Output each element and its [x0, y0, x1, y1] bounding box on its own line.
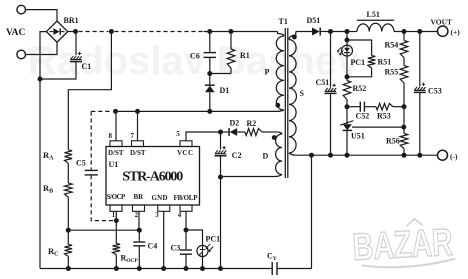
pin name GND — [152, 194, 168, 202]
svg-text:C5: C5 — [76, 159, 86, 168]
node: VCC branch on ground rail — [218, 266, 223, 271]
wire from top rail down and left to RA divider — [68, 32, 111, 150]
capacitor C53 (electrolytic) — [414, 83, 426, 93]
svg-text:R55: R55 — [385, 68, 399, 77]
svg-text:R1: R1 — [240, 51, 250, 60]
label P (primary winding) — [265, 68, 270, 77]
node: dashed line junction on S/OCP pin wire — [114, 218, 119, 223]
wire C3 top lead — [185, 230, 187, 249]
svg-text:BR1: BR1 — [64, 16, 79, 25]
pin number 3 — [155, 211, 159, 219]
node: PC1 emitter on ground rail — [200, 266, 205, 271]
pin name BR — [134, 193, 145, 201]
svg-text:R53: R53 — [377, 112, 391, 121]
node: pin7 junction on D/ST rail — [135, 109, 140, 114]
svg-text:D: D — [263, 151, 269, 160]
label (+) — [451, 28, 461, 37]
node: GND pin on ground rail — [161, 266, 166, 271]
svg-text:(+): (+) — [451, 28, 461, 37]
wire top rail solid: snubber to transformer primary — [204, 31, 278, 33]
wire U51 reference to divider node — [352, 126, 404, 128]
node: FB node junction — [184, 228, 189, 233]
label PC1 (secondary side) — [351, 58, 366, 67]
label STR-A6000 — [122, 170, 183, 185]
node: LED/R51 bottom junction — [345, 74, 350, 79]
capacitor C4 — [133, 242, 145, 246]
svg-text:D/ST: D/ST — [130, 149, 146, 157]
pin number 7 — [131, 132, 135, 140]
inductor L51 — [357, 20, 394, 31]
svg-text:S: S — [300, 89, 305, 98]
svg-text:C4: C4 — [148, 242, 158, 251]
label D2 — [230, 118, 240, 127]
wire C2 bottom lead — [220, 156, 222, 177]
node: startup resistor tap on top rail — [109, 29, 114, 34]
node: C6 top junction — [207, 29, 212, 34]
svg-text:R54: R54 — [385, 41, 399, 50]
wire U51 anode to secondary ground — [346, 130, 348, 155]
transformer auxiliary winding D — [221, 132, 283, 177]
node: auxiliary winding polarity dot — [272, 135, 277, 140]
node: BR line / C4 junction — [137, 228, 142, 233]
label D1 — [220, 86, 230, 95]
svg-text:C6: C6 — [190, 51, 200, 60]
svg-text:D/ST: D/ST — [108, 149, 124, 157]
label R55 — [385, 68, 399, 77]
svg-text:R56: R56 — [386, 137, 400, 146]
wire PC1 emitter to ground rail — [202, 257, 204, 269]
label T1 — [279, 17, 288, 26]
wire R2 to auxiliary winding D — [262, 131, 278, 133]
resistor R53 — [376, 103, 393, 110]
label RC — [48, 246, 58, 258]
node: PC1-LED / R51 top junction — [345, 38, 350, 43]
node: RB/RC/BR-line junction — [66, 228, 71, 233]
label CY — [267, 252, 277, 263]
wire secondary ground down to CY — [311, 155, 313, 268]
node: R56 bottom on secondary ground rail — [402, 153, 407, 158]
label C52 — [356, 112, 370, 121]
wire RB to BR node — [67, 197, 69, 230]
wire C51 node to PC1-LED node — [331, 31, 348, 33]
wire DC-negative: bridge left vertex down left side to bottom rail — [40, 32, 46, 269]
pin number 8 — [109, 132, 113, 140]
transistor PC1 (optocoupler photo-transistor) — [197, 244, 213, 257]
node: C3 bottom on ground rail — [184, 266, 189, 271]
capacitor C52 — [360, 102, 364, 112]
node: VCC / C2 / D2 junction — [218, 130, 223, 135]
transformer T1 core — [285, 28, 288, 178]
node: C53 top junction — [417, 29, 422, 34]
svg-text:5: 5 — [176, 130, 180, 138]
svg-text:GND: GND — [152, 194, 168, 202]
wire D2 anode to R2 — [237, 131, 245, 133]
resistor R52 — [343, 77, 351, 107]
label C1 — [82, 62, 92, 71]
wire C4 bottom lead — [138, 246, 140, 268]
pin name D/ST (pin7) — [130, 149, 146, 157]
node: C53 bottom on secondary ground rail — [417, 153, 422, 158]
svg-text:C52: C52 — [356, 112, 370, 121]
wire C53 bottom lead — [419, 92, 421, 155]
svg-text:PC1: PC1 — [351, 58, 366, 67]
svg-text:BR: BR — [134, 193, 145, 201]
svg-text:D51: D51 — [307, 16, 321, 25]
svg-text:PC1: PC1 — [206, 235, 221, 244]
label VOUT — [431, 18, 453, 27]
op-amp U1 body (STR-A6000 IC outline) — [106, 147, 200, 206]
wire VCC node to D2 cathode — [221, 131, 230, 133]
svg-text:C3: C3 — [171, 244, 181, 253]
node: C4 bottom on ground rail — [137, 266, 142, 271]
svg-text:R2: R2 — [247, 119, 257, 128]
wire R51 bottom — [347, 68, 372, 77]
wire C53 node to VOUT terminal — [420, 31, 438, 33]
wire C52 to R53 — [365, 106, 376, 108]
label C5 — [76, 159, 86, 168]
node: RC bottom on primary ground rail — [66, 266, 71, 271]
resistor RA — [65, 150, 73, 164]
wire FB node to optocoupler collector — [186, 230, 203, 245]
node: U51 anode on secondary ground rail — [345, 153, 350, 158]
svg-text:R51: R51 — [378, 58, 392, 67]
svg-text:(-): (-) — [450, 152, 458, 161]
wire pin 4 down to FB node — [185, 211, 187, 230]
node: D51 output / C51 junction — [328, 29, 333, 34]
resistor R54 — [400, 32, 408, 58]
node: R54 top junction — [402, 29, 407, 34]
wire (dashed) C5 to S/OCP pin line — [91, 175, 113, 220]
svg-text:P: P — [265, 68, 270, 77]
pin name S/OCP — [107, 193, 126, 201]
capacitor C1 (electrolytic) — [70, 52, 82, 62]
pin number 2 — [135, 211, 139, 219]
label RB — [43, 183, 53, 195]
wire U51 node to C52 — [347, 106, 360, 108]
wire C53 top lead — [419, 32, 421, 87]
wire RA to RB — [67, 163, 69, 183]
wire CY right lead — [277, 268, 311, 270]
svg-text:3: 3 — [155, 211, 159, 219]
label R51 — [378, 58, 392, 67]
wire L51 to R54 node — [394, 31, 404, 33]
wire PC1 LED branch from rail — [346, 32, 348, 41]
node: reference junction at divider — [401, 125, 406, 130]
label PC1 (primary side) — [206, 235, 221, 244]
svg-text:C2: C2 — [232, 151, 242, 160]
label L51 — [367, 10, 380, 19]
label R52 — [353, 84, 367, 93]
wire snubber junction to D1 cathode — [209, 74, 211, 86]
wire C6 top lead — [209, 32, 211, 52]
diode D2 — [229, 128, 237, 136]
wire C1 negative lead to DC- rail — [40, 62, 76, 79]
terminal VAC bottom (AC input -) — [17, 50, 26, 59]
wire D1 anode to D/ST rail — [209, 92, 211, 111]
svg-text:7: 7 — [131, 132, 135, 140]
svg-text:U51: U51 — [351, 132, 365, 141]
svg-text:D1: D1 — [220, 86, 230, 95]
svg-text:C51: C51 — [316, 78, 330, 87]
pin 2 box (bottom) — [133, 205, 145, 211]
wire BR sense line to pin 2 — [68, 229, 139, 231]
resistor RB — [65, 183, 73, 197]
wire C6/R1 bottoms join — [210, 58, 231, 74]
wire top rail (dashed main power trace) C1 node to startup tap — [79, 31, 109, 33]
svg-text:1: 1 — [112, 211, 116, 219]
wire D51 cathode to C51 node — [321, 31, 331, 33]
node: pin8 junction on D/ST rail — [113, 109, 118, 114]
wire from VAC top terminal to bridge top vertex — [26, 10, 58, 22]
capacitor C2 (electrolytic) — [215, 146, 227, 156]
label R1 — [240, 51, 250, 60]
capacitor C3 — [180, 250, 192, 254]
label D (auxiliary winding) — [263, 151, 269, 160]
label C4 — [148, 242, 158, 251]
wire secondary ground rail — [296, 154, 438, 156]
pin number 5 — [176, 130, 180, 138]
wire R1 top lead — [230, 32, 232, 50]
resistor R1 — [227, 49, 235, 68]
wire C3 bottom lead — [185, 255, 187, 269]
wire R53 to divider node — [393, 106, 404, 108]
shunt regulator U51 — [340, 107, 353, 131]
svg-text:T1: T1 — [279, 17, 288, 26]
wire pin 7 to D/ST rail — [137, 111, 139, 141]
node: primary winding polarity dot — [275, 103, 280, 108]
wire (dashed) D/ST rail left end — [91, 110, 112, 112]
label R53 — [377, 112, 391, 121]
label C53 — [428, 87, 442, 96]
diode D1 — [205, 85, 215, 92]
wire from VAC bottom terminal to bridge bottom vertex — [26, 42, 58, 54]
resistor R2 — [245, 129, 262, 136]
label VAC — [6, 28, 25, 38]
pin 4 box (bottom) — [180, 205, 192, 211]
label ROCP — [121, 254, 139, 265]
label D51 — [307, 16, 321, 25]
node: divider / compensation junction — [402, 104, 407, 109]
svg-text:VOUT: VOUT — [431, 18, 453, 27]
label RA — [43, 150, 54, 162]
svg-text:FB/OLP: FB/OLP — [174, 194, 199, 202]
pin 3 box (bottom) — [158, 205, 170, 211]
label R2 — [247, 119, 257, 128]
bridge rectifier BR1 — [46, 21, 67, 42]
pin 5 box (top) — [180, 141, 192, 147]
pin 1 box (bottom) — [110, 205, 122, 211]
wire pin 8 to D/ST rail — [115, 111, 117, 141]
diode PC1 (optocoupler LED) — [337, 40, 353, 56]
svg-text:VCC: VCC — [177, 149, 193, 157]
resistor ROCP — [113, 244, 121, 269]
svg-text:8: 8 — [109, 132, 113, 140]
decorative watermark logo (not a component) — [351, 217, 455, 270]
node: bridge + / C1 junction — [73, 29, 78, 34]
wire C51 top lead — [330, 32, 332, 88]
terminal VAC top (AC input +) — [17, 5, 26, 14]
wire C2 node down to ground rail — [220, 177, 222, 269]
wire D/ST rail to transformer primary bottom — [116, 110, 278, 112]
wire primary ground rail — [40, 268, 272, 270]
capacitor CY — [272, 262, 277, 275]
wire pin 5 VCC up and right to C2 node — [186, 132, 221, 141]
node: C2 / auxiliary winding return junction — [218, 175, 223, 180]
svg-text:4: 4 — [178, 211, 182, 219]
svg-text:U1: U1 — [109, 160, 119, 169]
resistor R56 — [400, 127, 408, 155]
node: ROCP bottom on ground rail — [114, 266, 119, 271]
capacitor C6 — [204, 53, 216, 58]
pin number 1 — [112, 211, 116, 219]
terminal VOUT (+) — [438, 26, 448, 36]
pin 7 box (top) — [132, 141, 144, 147]
wire C4 top lead — [138, 230, 140, 241]
node: PC1 LED branch junction — [345, 29, 350, 34]
node: snubber RC to D1 junction — [207, 71, 212, 76]
node: R1 top junction — [229, 29, 234, 34]
diode D51 — [312, 28, 320, 36]
svg-text:S/OCP: S/OCP — [107, 193, 126, 201]
resistor R55 — [400, 58, 408, 107]
label (-) — [450, 152, 458, 161]
wire PC1 LED cathode down — [346, 56, 348, 77]
svg-text:2: 2 — [135, 211, 139, 219]
svg-text:L51: L51 — [367, 10, 380, 19]
label C6 — [190, 51, 200, 60]
wire top rail: bridge output to C1 node — [68, 31, 78, 33]
node: C51 bottom on secondary ground rail — [328, 153, 333, 158]
svg-text:D2: D2 — [230, 118, 240, 127]
transformer primary winding P — [276, 32, 284, 112]
svg-text:VAC: VAC — [6, 28, 25, 38]
wire R51 top — [347, 40, 372, 56]
svg-text:STR-A6000: STR-A6000 — [122, 170, 183, 185]
label R54 — [385, 41, 399, 50]
capacitor C5 — [85, 170, 98, 175]
label R56 — [386, 137, 400, 146]
wire top rail (dashed main power trace) startup tap to snubber — [114, 31, 203, 33]
pin name D/ST (pin8) — [108, 149, 124, 157]
wire pin 3 GND to ground rail — [163, 211, 165, 268]
transformer secondary winding S — [289, 32, 296, 156]
wire (dashed) from D/ST rail down to C5 — [90, 111, 92, 169]
terminal output (-) — [438, 150, 448, 160]
svg-text:C1: C1 — [82, 62, 92, 71]
label S (secondary winding) — [300, 89, 305, 98]
label U1 — [109, 160, 119, 169]
node: C1 negative junction on DC- rail — [38, 77, 43, 82]
label BR1 — [64, 16, 79, 25]
svg-text:C53: C53 — [428, 87, 442, 96]
node: secondary winding polarity dot — [292, 35, 297, 40]
wire divider node down — [403, 107, 405, 127]
decorative watermark (not labelled as component) — [28, 39, 360, 83]
capacitor C51 (electrolytic) — [325, 84, 337, 94]
pin name FB/OLP — [174, 194, 199, 202]
node: Y-capacitor branch junction — [309, 153, 314, 158]
label C3 — [171, 244, 181, 253]
label U51 — [351, 132, 365, 141]
pin name VCC — [177, 149, 193, 157]
wire C51 bottom lead — [330, 93, 332, 155]
pin 8 box (top) — [110, 141, 122, 147]
pin number 4 — [178, 211, 182, 219]
resistor R51 — [368, 56, 376, 69]
svg-text:R52: R52 — [353, 84, 367, 93]
label C51 — [316, 78, 330, 87]
wire R54 node to C53 node — [404, 31, 420, 33]
wire pin 1 to ROCP — [115, 211, 117, 243]
label C2 — [232, 151, 242, 160]
wire C2 top lead — [220, 132, 222, 149]
wire C1 positive lead — [75, 32, 77, 56]
wire secondary winding top to D51 anode — [296, 31, 312, 33]
node: D1 junction on D/ST rail — [207, 109, 212, 114]
resistor RC — [65, 230, 73, 268]
node: U51 cathode node — [345, 104, 350, 109]
wire pin 2 down to BR node — [138, 211, 140, 230]
wire to L51 — [347, 31, 357, 33]
